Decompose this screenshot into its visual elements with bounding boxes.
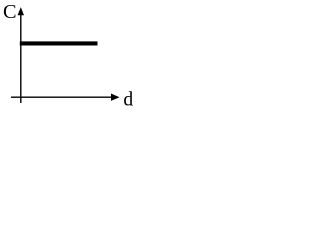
constant C curve (thick horizontal line): [20, 41, 98, 45]
svg-text:d: d: [123, 90, 133, 111]
vertical axis (C axis): [20, 10, 22, 103]
vertical axis arrowhead: [18, 7, 24, 15]
svg-text:C: C: [3, 1, 17, 23]
background: [0, 0, 137, 114]
horizontal axis arrowhead: [111, 94, 120, 101]
horizontal axis (d axis): [11, 96, 112, 98]
